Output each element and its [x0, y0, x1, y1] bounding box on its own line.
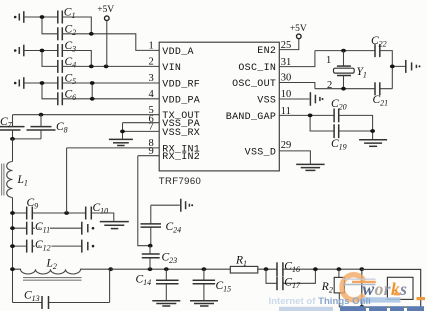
wire C24 to ground [151, 204, 180, 206]
ground earth below pin29 [296, 164, 324, 170]
wire left antenna rail [12, 139, 14, 303]
wire TX_OUT rail (pin5) [13, 114, 160, 116]
capacitor C21 [373, 82, 389, 107]
U1 left pin numbers 1-9 [149, 41, 155, 158]
svg-text:VDD_A: VDD_A [162, 47, 194, 58]
node junction (66.6,213) [64, 211, 69, 215]
ground (right of C11) [82, 222, 94, 235]
svg-text:VIN: VIN [162, 63, 181, 74]
node junction (266,269.2) [264, 267, 269, 271]
inductor L1 [2, 162, 28, 198]
inductor L2 [13, 257, 111, 280]
wire ground2 to C3/C4 [24, 51, 58, 67]
svg-text:+5V: +5V [97, 5, 114, 15]
svg-text:TRF7960: TRF7960 [159, 176, 201, 187]
wire OSC_IN pin31 to crystal node 1 [279, 51, 375, 67]
node junction (106.1,66.4) [104, 65, 109, 69]
capacitor C24 [141, 205, 182, 246]
wire bottom rail C7-C8 [13, 138, 42, 140]
svg-text:BAND_GAP: BAND_GAP [226, 112, 276, 123]
ground G3 (left of C5) [14, 77, 24, 89]
svg-text:OSC_OUT: OSC_OUT [232, 79, 276, 90]
node junction (315.4,269.2) [313, 267, 318, 271]
node junction (42,17) [40, 15, 45, 19]
U1 right pin numbers [281, 40, 292, 151]
node junction (361.8,269.2) [359, 267, 364, 271]
U1 right pin labels [226, 46, 276, 158]
U1 left pin labels [162, 47, 200, 163]
node junction (392.3,66.4) [390, 65, 395, 69]
wire ground3 to C5/C6 [24, 83, 58, 99]
node junction (42,83) [40, 81, 45, 85]
wire C5 to pin3 [62, 82, 159, 84]
ground earth below C15 [190, 301, 218, 306]
svg-text:VDD_RF: VDD_RF [162, 79, 200, 90]
node junction (12.5,213) [10, 211, 15, 215]
node junction (150.2,245.7) [148, 244, 153, 248]
ground earth below C14 [152, 301, 180, 306]
svg-text:30: 30 [281, 73, 292, 84]
node junction (92.2,83) [90, 81, 95, 85]
wire VSS_PA pin6 / VSS_RX pin7 to ground [123, 123, 160, 139]
node junction (166.3,269.2) [164, 267, 169, 271]
capacitor C22 [371, 35, 387, 57]
capacitor C4 [58, 56, 76, 73]
svg-text:VSS: VSS [257, 96, 276, 107]
crystal Y1 [334, 51, 367, 89]
watermark internet of things text [269, 296, 371, 307]
ground earth below C19/C20 [359, 140, 387, 147]
watermark second row blocks [279, 293, 425, 311]
ground (right of pin10) [310, 92, 323, 106]
svg-text:1: 1 [326, 55, 331, 66]
node junction (42,50.5) [40, 49, 45, 53]
capacitor C23 [142, 246, 177, 270]
svg-text:VSS_RX: VSS_RX [162, 128, 200, 139]
capacitor C3 [58, 40, 76, 57]
node junction (41,114.7) [39, 113, 44, 117]
power +5V left terminal [97, 5, 114, 67]
ground (right of C24) [181, 199, 193, 212]
op-amp U1 TRF7960 body [159, 42, 279, 171]
wire C9/C10 row [13, 213, 114, 221]
node junction (361.8,306.9) [359, 305, 364, 309]
wire BAND_GAP pin11 net [279, 115, 372, 139]
ground (right of C12) [82, 240, 94, 253]
capacitor C12 [27, 239, 51, 253]
wire C3 right corner to VIN rail [62, 51, 91, 67]
wire EN2 pin25 to +5V [279, 39, 299, 50]
wire link pin3-pin4 rail [91, 83, 93, 99]
capacitor C11 [27, 221, 50, 235]
node junction (91.3,33.8) [89, 32, 94, 36]
node junction (338.9,269.2) [337, 267, 342, 271]
node junction (343.5,50.6) [341, 49, 346, 53]
wire C11 row [13, 227, 82, 229]
ground earth below C10 [100, 222, 129, 229]
capacitor C10 [86, 202, 108, 220]
node junction (372.6,131) [370, 129, 375, 133]
capacitor C7 [0, 115, 25, 139]
capacitor C14 [136, 269, 179, 300]
capacitor C15 [193, 269, 232, 300]
node junction (92.2,98.8) [90, 97, 95, 101]
wire ground1 to C1/C2 [24, 17, 58, 34]
capacitor C6 [58, 88, 76, 105]
node junction (12.5,228.2) [10, 226, 15, 230]
svg-text:RX_IN2: RX_IN2 [162, 152, 200, 163]
svg-text:10: 10 [281, 89, 292, 100]
svg-text:VSS_D: VSS_D [245, 147, 277, 158]
power +5V right terminal [290, 24, 307, 39]
node junction (12.5,246.1) [10, 244, 15, 248]
capacitor C5 [58, 73, 76, 90]
node junction (12.5,269.2) [10, 267, 15, 271]
wire VIN net to pin2 [62, 65, 159, 67]
node junction (91.3,66.4) [89, 65, 94, 69]
wire VSS pin10 to ground [279, 98, 309, 100]
capacitor C17 [266, 269, 315, 290]
capacitor C13 [13, 269, 110, 309]
capacitor C8 [27, 115, 68, 139]
capacitor C1 [58, 7, 76, 24]
svg-text:Internet of Things Onli: Internet of Things Onli [269, 296, 371, 307]
svg-text:2: 2 [327, 80, 332, 91]
ground G2 (left of C3) [14, 45, 24, 57]
capacitor C9 [27, 197, 39, 220]
wire crystal right rail [380, 51, 406, 89]
node junction (310.1,115.4) [308, 114, 313, 118]
node junction (203.9,269.2) [202, 267, 207, 271]
ground (right of crystal) [406, 60, 421, 73]
wire C6 to pin4 [62, 98, 159, 100]
wire RX_IN2 pin9 net [138, 156, 159, 246]
wire RX_IN1 pin8 to C9/C10 node [67, 148, 160, 213]
wire OSC_OUT pin30 to crystal node 2 [279, 83, 375, 89]
antenna connector inner box [387, 277, 413, 299]
ground G1 (left of C1) [14, 11, 24, 23]
wire C12 row [13, 245, 82, 247]
node junction (122.5,131.4) [120, 130, 125, 134]
svg-text:VDD_PA: VDD_PA [162, 95, 200, 106]
node junction (110.7,269.2) [108, 267, 113, 271]
svg-text:29: 29 [281, 140, 292, 151]
watermark e-works logo [342, 275, 407, 303]
ground earth below pins 6/7 [109, 139, 133, 145]
svg-text:EN2: EN2 [257, 46, 276, 57]
capacitor C20 [331, 98, 347, 123]
capacitor C19 [331, 124, 347, 151]
resistor R1 [230, 254, 257, 273]
svg-text:+5V: +5V [290, 24, 307, 34]
wire C1/C2 right to pin1 [62, 17, 159, 50]
capacitor C16 [277, 260, 300, 276]
antenna connector outer box [362, 269, 421, 307]
wire main bottom rail [111, 268, 362, 270]
node junction (150,269.2) [148, 267, 153, 271]
capacitor C2 [58, 23, 76, 40]
wire VSS_D pin29 to ground [279, 151, 310, 164]
svg-text:OSC_IN: OSC_IN [238, 63, 276, 74]
node junction (12.5,138.9) [10, 137, 15, 141]
resistor R2 [321, 269, 362, 307]
node junction (343.5,88.7) [341, 87, 346, 91]
